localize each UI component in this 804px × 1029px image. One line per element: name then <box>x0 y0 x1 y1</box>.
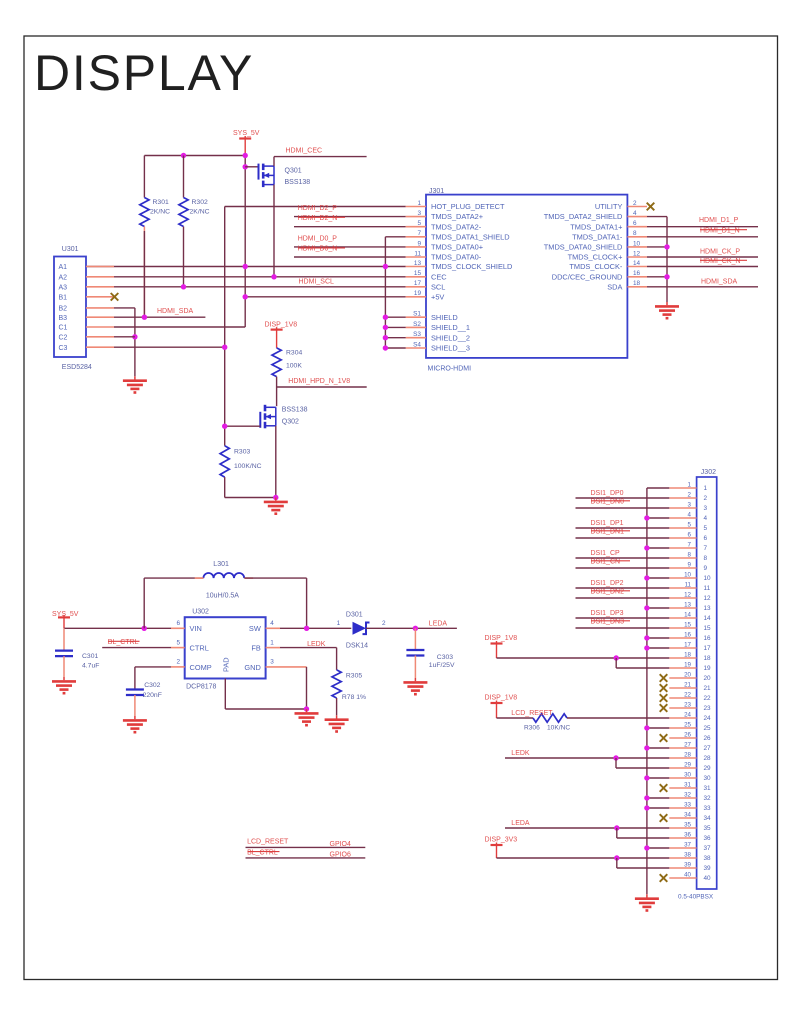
svg-text:TMDS_DATA1+: TMDS_DATA1+ <box>570 222 622 231</box>
wire jog to pin36 <box>616 828 618 838</box>
wires shield pins S1-S4 to bus <box>385 316 405 318</box>
svg-text:DISP_1V8: DISP_1V8 <box>265 321 298 328</box>
svg-text:13: 13 <box>704 605 712 612</box>
no-connect X on J302 pin 26 <box>660 734 668 742</box>
svg-text:19: 19 <box>684 662 691 669</box>
wire bus to pin 7 <box>647 547 669 549</box>
wire bus to pin 27 <box>647 747 669 749</box>
svg-text:21: 21 <box>704 685 712 692</box>
wire SYS_5V vertical <box>244 156 246 328</box>
svg-text:TMDS_DATA0_SHIELD: TMDS_DATA0_SHIELD <box>544 243 623 252</box>
svg-text:26: 26 <box>684 732 691 739</box>
svg-text:1uF/25V: 1uF/25V <box>429 662 455 669</box>
wire jog to pin39 <box>616 858 618 868</box>
J301 pin 12 TMDS_CLOCK+ <box>627 256 647 258</box>
svg-text:J301: J301 <box>429 188 444 195</box>
svg-text:14: 14 <box>633 260 641 267</box>
svg-text:11: 11 <box>704 585 711 592</box>
svg-text:4.7uF: 4.7uF <box>82 663 99 670</box>
svg-text:24: 24 <box>704 715 712 722</box>
svg-text:DSI1_CN: DSI1_CN <box>591 558 621 565</box>
J301 pin S1 SHIELD <box>406 316 426 318</box>
net DSI1_DN3 wire to pin 15 <box>576 627 670 629</box>
svg-text:R301: R301 <box>153 199 169 206</box>
connector J301 MICRO-HDMI <box>426 195 627 358</box>
svg-text:14: 14 <box>704 615 712 622</box>
svg-text:DSI1_DN0: DSI1_DN0 <box>591 498 625 505</box>
svg-text:R306: R306 <box>524 725 540 732</box>
svg-text:TMDS_DATA1_SHIELD: TMDS_DATA1_SHIELD <box>431 232 510 241</box>
svg-text:7: 7 <box>417 230 421 237</box>
svg-text:31: 31 <box>704 785 712 792</box>
wire bus to pin 25 <box>647 727 669 729</box>
wire pin8 HDMI_D1_N <box>647 236 758 238</box>
svg-text:4: 4 <box>270 620 274 627</box>
svg-text:5: 5 <box>688 522 692 529</box>
wire +5V row pin19 <box>245 296 406 298</box>
svg-text:C3: C3 <box>59 345 68 352</box>
wire row pin5 <box>294 226 406 228</box>
wire bus to pin 33 <box>647 807 669 809</box>
wire COMP to C302 <box>135 666 171 668</box>
wire J302 left bus vertical <box>646 488 648 894</box>
svg-text:HDMI_SDA: HDMI_SDA <box>701 278 738 285</box>
svg-text:7: 7 <box>704 545 708 552</box>
net DSI1_DP3 wire to pin 14 <box>576 617 670 619</box>
svg-text:C2: C2 <box>59 334 68 341</box>
svg-text:UTILITY: UTILITY <box>595 202 623 211</box>
inductor L301 10uH/0.5A <box>143 578 145 628</box>
resistor R302 <box>183 156 185 198</box>
wire pin6 HDMI_D1_P <box>647 226 758 228</box>
wire U301 C3 <box>114 346 225 348</box>
resistor R303 100K/NC <box>220 446 229 477</box>
svg-text:SHIELD__2: SHIELD__2 <box>431 333 470 342</box>
svg-text:15: 15 <box>704 625 712 632</box>
J301 pin 14 TMDS_CLOCK- <box>627 266 647 268</box>
wire bus to pin 17 <box>647 647 669 649</box>
svg-text:36: 36 <box>684 832 691 839</box>
ground under C303 <box>403 678 427 694</box>
svg-text:GPIO4: GPIO4 <box>330 841 352 848</box>
svg-text:CEC: CEC <box>431 272 447 281</box>
svg-text:R303: R303 <box>234 449 250 456</box>
wire DISP_1V8 to pin18 <box>497 657 670 659</box>
svg-text:DCP8178: DCP8178 <box>186 683 216 690</box>
svg-text:23: 23 <box>684 702 691 709</box>
svg-text:29: 29 <box>704 765 712 772</box>
svg-text:10: 10 <box>704 575 712 582</box>
net DSI1_DN1 wire to pin 6 <box>576 537 670 539</box>
J301 pin S4 SHIELD__3 <box>406 347 426 349</box>
svg-text:16: 16 <box>704 635 712 642</box>
svg-text:DSI1_DP0: DSI1_DP0 <box>591 490 624 497</box>
svg-text:HDMI_HPD_N_1V8: HDMI_HPD_N_1V8 <box>288 378 350 385</box>
svg-text:L301: L301 <box>213 561 229 568</box>
svg-text:4: 4 <box>633 210 637 217</box>
svg-text:11: 11 <box>685 582 692 589</box>
svg-text:220nF: 220nF <box>143 692 162 699</box>
svg-text:R305: R305 <box>346 673 362 680</box>
svg-text:BL_CTRL: BL_CTRL <box>108 639 139 646</box>
svg-text:3: 3 <box>270 659 274 666</box>
svg-text:28: 28 <box>684 752 691 759</box>
J301 pin 9 TMDS_DATA0+ <box>406 246 426 248</box>
wire Q301 drain up <box>273 157 275 167</box>
no-connect X on J302 pin 34 <box>660 814 668 822</box>
svg-text:17: 17 <box>704 645 712 652</box>
svg-text:SYS_5V: SYS_5V <box>233 130 260 137</box>
J301 pin 5 TMDS_DATA2- <box>406 226 426 228</box>
wire DISP_3V3 to pin38 <box>497 857 670 859</box>
svg-text:34: 34 <box>684 812 691 819</box>
svg-text:GPIO6: GPIO6 <box>330 851 352 858</box>
wire bus to pin 37 <box>647 847 669 849</box>
wire pin12 HDMI_CK_P <box>647 256 758 258</box>
svg-text:12: 12 <box>633 250 641 257</box>
power SYS_5V (top) <box>239 136 251 139</box>
svg-text:SW: SW <box>249 624 261 633</box>
svg-text:DISP_1V8: DISP_1V8 <box>485 695 518 702</box>
wire diode to LEDA <box>366 627 457 629</box>
svg-text:26: 26 <box>704 735 712 742</box>
svg-text:C1: C1 <box>59 325 68 332</box>
svg-text:COMP: COMP <box>190 663 212 672</box>
power DISP_1V8 (LCD_RESET) <box>491 701 503 704</box>
svg-text:Q302: Q302 <box>282 419 299 426</box>
svg-text:LCD_RESET: LCD_RESET <box>247 839 289 846</box>
ground under R305 <box>325 715 349 731</box>
svg-text:27: 27 <box>684 742 691 749</box>
svg-text:+5V: +5V <box>431 292 444 301</box>
net BL_CTRL to GPIO6 <box>246 857 366 859</box>
svg-text:6: 6 <box>688 532 692 539</box>
svg-text:C301: C301 <box>82 653 98 660</box>
svg-text:1: 1 <box>704 485 708 492</box>
svg-text:S2: S2 <box>413 321 421 328</box>
svg-text:33: 33 <box>684 802 691 809</box>
J301 pin S3 SHIELD__2 <box>406 337 426 339</box>
svg-text:3: 3 <box>417 210 421 217</box>
svg-text:B1: B1 <box>59 294 68 301</box>
svg-text:TMDS_DATA2-: TMDS_DATA2- <box>431 222 482 231</box>
svg-text:2: 2 <box>382 620 386 627</box>
net DSI1_DP0 wire to pin 2 <box>576 497 670 499</box>
wire U301 C1 to SYS_5V vertical <box>114 326 245 328</box>
svg-text:DSK14: DSK14 <box>346 642 368 649</box>
resistor R304 100K <box>272 348 281 377</box>
svg-text:TMDS_DATA2+: TMDS_DATA2+ <box>431 212 483 221</box>
svg-text:10: 10 <box>684 572 691 579</box>
svg-text:6: 6 <box>633 220 637 227</box>
svg-text:100K: 100K <box>286 363 302 370</box>
svg-text:BL_CTRL: BL_CTRL <box>247 850 278 857</box>
wire bus to pin 30 <box>647 777 669 779</box>
svg-text:HDMI_D0_N: HDMI_D0_N <box>298 246 338 253</box>
svg-text:DISP_1V8: DISP_1V8 <box>485 635 518 642</box>
svg-text:TMDS_DATA2_SHIELD: TMDS_DATA2_SHIELD <box>544 212 623 221</box>
wire jog to pin19 <box>615 658 617 668</box>
svg-text:2: 2 <box>688 492 692 499</box>
svg-text:0.5-40PBSX: 0.5-40PBSX <box>678 894 714 901</box>
svg-text:S4: S4 <box>413 341 421 348</box>
svg-text:34: 34 <box>704 815 712 822</box>
wire HPD row (pin1) <box>225 206 406 208</box>
svg-text:FB: FB <box>251 643 261 652</box>
ESD chip U301 <box>54 257 86 358</box>
svg-text:18: 18 <box>633 280 641 287</box>
svg-text:HDMI_CK_P: HDMI_CK_P <box>700 248 740 255</box>
svg-text:LEDK: LEDK <box>307 641 326 648</box>
svg-text:5: 5 <box>704 525 708 532</box>
svg-text:ESD5284: ESD5284 <box>62 364 92 371</box>
svg-text:C302: C302 <box>144 682 160 689</box>
svg-text:22: 22 <box>684 692 691 699</box>
svg-text:SHIELD: SHIELD <box>431 313 458 322</box>
svg-text:8: 8 <box>633 230 637 237</box>
svg-text:8: 8 <box>704 555 708 562</box>
J301 pin 13 TMDS_CLOCK_SHIELD <box>406 266 426 268</box>
wire pin18 HDMI_SDA right <box>647 286 758 288</box>
svg-text:Q301: Q301 <box>285 168 302 175</box>
svg-text:SHIELD__1: SHIELD__1 <box>431 323 470 332</box>
svg-text:24: 24 <box>684 712 691 719</box>
no-connect X on U301 B1 <box>111 293 119 301</box>
svg-text:A3: A3 <box>59 284 68 291</box>
svg-text:BSS138: BSS138 <box>285 179 311 186</box>
svg-text:HDMI_SCL: HDMI_SCL <box>299 279 335 286</box>
wire U301 B2 <box>114 307 135 309</box>
svg-text:BSS138: BSS138 <box>282 407 308 414</box>
J301 pin 18 SDA <box>627 286 647 288</box>
wire Q302 gate <box>225 425 261 427</box>
transistor Q302 BSS138 <box>260 405 276 429</box>
svg-text:6: 6 <box>704 535 708 542</box>
svg-text:27: 27 <box>704 745 712 752</box>
wire top rail to R301 R302 <box>144 155 245 157</box>
svg-text:40: 40 <box>704 875 712 882</box>
svg-text:U301: U301 <box>62 246 79 253</box>
wire SW to diode <box>280 627 351 629</box>
transistor Q301 BSS138 <box>259 164 275 188</box>
svg-text:5: 5 <box>417 220 421 227</box>
svg-text:9: 9 <box>704 565 708 572</box>
svg-text:38: 38 <box>704 855 712 862</box>
svg-text:25: 25 <box>704 725 712 732</box>
svg-text:DSI1_DN2: DSI1_DN2 <box>591 588 625 595</box>
svg-text:1: 1 <box>417 200 421 207</box>
J301 pin 4 TMDS_DATA2_SHIELD <box>627 216 647 218</box>
J301 pin 8 TMDS_DATA1- <box>627 236 647 238</box>
J301 pin 1 HOT_PLUG_DETECT <box>406 206 426 208</box>
svg-text:10K/NC: 10K/NC <box>547 725 570 732</box>
wire FB corner down to R305 <box>336 648 338 670</box>
wire Q301 source down <box>273 185 275 277</box>
svg-text:16: 16 <box>684 632 691 639</box>
svg-text:4: 4 <box>704 515 708 522</box>
capacitor C303 1uF/25V <box>414 628 416 650</box>
net LCD_RESET wire with R306 <box>497 717 534 719</box>
svg-text:GND: GND <box>244 663 260 672</box>
svg-text:1: 1 <box>337 620 341 627</box>
svg-text:TMDS_DATA0+: TMDS_DATA0+ <box>431 243 483 252</box>
svg-text:2: 2 <box>176 659 180 666</box>
wire pin4 to right bus <box>647 216 667 218</box>
svg-text:HDMI_CK_N: HDMI_CK_N <box>700 258 740 265</box>
svg-text:2K/NC: 2K/NC <box>150 209 170 216</box>
J301 pin S2 SHIELD__1 <box>406 326 426 328</box>
svg-text:A2: A2 <box>59 274 68 281</box>
svg-text:VIN: VIN <box>190 624 202 633</box>
power DISP_1V8 (pins 18 19) <box>491 641 503 644</box>
svg-text:9: 9 <box>417 240 421 247</box>
svg-text:S3: S3 <box>413 331 421 338</box>
J301 pin 6 TMDS_DATA1+ <box>627 226 647 228</box>
svg-text:4: 4 <box>688 512 692 519</box>
svg-text:16: 16 <box>633 270 641 277</box>
svg-text:21: 21 <box>684 682 691 689</box>
net DSI1_CP wire to pin 8 <box>576 557 670 559</box>
svg-text:40: 40 <box>684 872 691 879</box>
svg-text:18: 18 <box>704 655 712 662</box>
net LEDK wire to pin28 <box>505 757 669 759</box>
svg-text:25: 25 <box>684 722 691 729</box>
svg-text:17: 17 <box>414 280 422 287</box>
J301 pin 15 CEC <box>406 276 426 278</box>
net DSI1_DP1 wire to pin 5 <box>576 527 670 529</box>
svg-text:5: 5 <box>176 639 180 646</box>
svg-text:HDMI_CEC: HDMI_CEC <box>286 147 323 154</box>
no-connect X on J302 pin 23 <box>660 704 668 712</box>
svg-text:1: 1 <box>270 639 274 646</box>
wire row pin3 <box>294 216 406 218</box>
svg-text:DSI1_DP1: DSI1_DP1 <box>591 520 624 527</box>
net HDMI_HPD_N_1V8 <box>276 377 278 387</box>
wire row pin9 <box>294 246 406 248</box>
net BL_CTRL wire <box>102 647 171 649</box>
wire right bus vertical <box>666 217 668 302</box>
wire pin14 HDMI_CK_N <box>647 266 758 268</box>
svg-text:22: 22 <box>704 695 712 702</box>
svg-text:12: 12 <box>684 592 691 599</box>
svg-text:J302: J302 <box>701 469 716 476</box>
svg-text:HDMI_D2_P: HDMI_D2_P <box>298 205 338 212</box>
wire bottom rail to ground <box>225 497 276 499</box>
resistor R305 R78 1% <box>332 670 341 698</box>
svg-text:35: 35 <box>704 825 712 832</box>
svg-text:28: 28 <box>704 755 712 762</box>
svg-text:8: 8 <box>688 552 692 559</box>
junction top rail SYS_5V <box>243 153 248 158</box>
svg-text:30: 30 <box>704 775 712 782</box>
J302 pin stubs and numbers <box>669 482 711 883</box>
J301 pin 19 +5V <box>406 296 426 298</box>
diode D301 DSK14 <box>353 622 367 635</box>
svg-text:3: 3 <box>688 502 692 509</box>
svg-text:14: 14 <box>684 612 691 619</box>
svg-text:A1: A1 <box>59 264 68 271</box>
svg-text:TMDS_DATA1-: TMDS_DATA1- <box>572 232 623 241</box>
svg-text:19: 19 <box>414 290 422 297</box>
svg-text:HDMI_D2_N: HDMI_D2_N <box>298 215 338 222</box>
wire U301 B3 HDMI_SDA <box>114 316 205 318</box>
svg-text:D301: D301 <box>346 612 363 619</box>
wire U301 A3 to pin17 HDMI_SCL <box>86 286 406 288</box>
svg-text:R302: R302 <box>192 199 208 206</box>
net LCD_RESET to GPIO4 <box>246 846 366 848</box>
svg-text:12: 12 <box>704 595 712 602</box>
svg-text:6: 6 <box>176 620 180 627</box>
svg-text:19: 19 <box>704 665 712 672</box>
svg-text:100K/NC: 100K/NC <box>234 463 262 470</box>
wire pin16 to bus <box>647 276 667 278</box>
svg-text:37: 37 <box>704 845 712 852</box>
regulator U302 DCP8178 <box>185 617 266 678</box>
svg-text:1: 1 <box>688 482 692 489</box>
svg-text:33: 33 <box>704 805 712 812</box>
svg-text:SDA: SDA <box>607 282 622 291</box>
wire bus to pin 16 <box>647 637 669 639</box>
svg-text:39: 39 <box>704 865 712 872</box>
svg-text:CTRL: CTRL <box>190 643 209 652</box>
ground under J302 bus <box>635 894 659 910</box>
svg-text:7: 7 <box>688 542 692 549</box>
svg-text:23: 23 <box>704 705 712 712</box>
net DSI1_DN2 wire to pin 12 <box>576 597 670 599</box>
svg-text:3: 3 <box>704 505 708 512</box>
wire GND pin down <box>306 667 308 709</box>
svg-text:2K/NC: 2K/NC <box>190 209 210 216</box>
net LEDA wire to pin35 <box>505 827 669 829</box>
svg-text:HDMI_D1_P: HDMI_D1_P <box>699 217 739 224</box>
wire bus to pin 13 <box>647 607 669 609</box>
svg-text:C303: C303 <box>437 654 453 661</box>
svg-text:20: 20 <box>704 675 712 682</box>
svg-text:11: 11 <box>414 250 421 257</box>
svg-text:HDMI_D0_P: HDMI_D0_P <box>298 236 338 243</box>
J301 pin 2 UTILITY <box>627 206 647 208</box>
J301 pin 17 SCL <box>406 286 426 288</box>
svg-text:15: 15 <box>684 622 691 629</box>
svg-text:38: 38 <box>684 852 691 859</box>
svg-text:DSI1_DN1: DSI1_DN1 <box>591 528 625 535</box>
svg-text:SHIELD__3: SHIELD__3 <box>431 344 470 353</box>
capacitor C301 4.7uF <box>63 628 65 650</box>
svg-text:10uH/0.5A: 10uH/0.5A <box>206 592 239 599</box>
svg-text:TMDS_DATA0-: TMDS_DATA0- <box>431 253 482 262</box>
svg-text:32: 32 <box>684 792 691 799</box>
wire bus to pin 10 <box>647 577 669 579</box>
svg-text:B2: B2 <box>59 306 68 313</box>
J301 pin 16 DDC/CEC_GROUND <box>627 276 647 278</box>
wire U301 C2 <box>114 336 135 338</box>
svg-text:31: 31 <box>684 782 691 789</box>
svg-text:2: 2 <box>704 495 708 502</box>
net HDMI_CEC <box>274 156 367 158</box>
svg-text:HDMI_SDA: HDMI_SDA <box>157 308 194 315</box>
wire row pin11 <box>294 256 406 258</box>
svg-text:2: 2 <box>633 200 637 207</box>
net DSI1_CN wire to pin 9 <box>576 567 670 569</box>
svg-text:R304: R304 <box>286 350 302 357</box>
power DISP_3V3 (pins 38 39) <box>491 843 503 846</box>
net LEDK wire FB <box>280 647 337 649</box>
ground under C302 <box>123 716 147 732</box>
svg-text:R78 1%: R78 1% <box>342 694 366 701</box>
ground under U302 GND <box>295 709 319 725</box>
J301 pin 11 TMDS_DATA0- <box>406 256 426 258</box>
wire PAD to gnd rail <box>224 679 226 710</box>
